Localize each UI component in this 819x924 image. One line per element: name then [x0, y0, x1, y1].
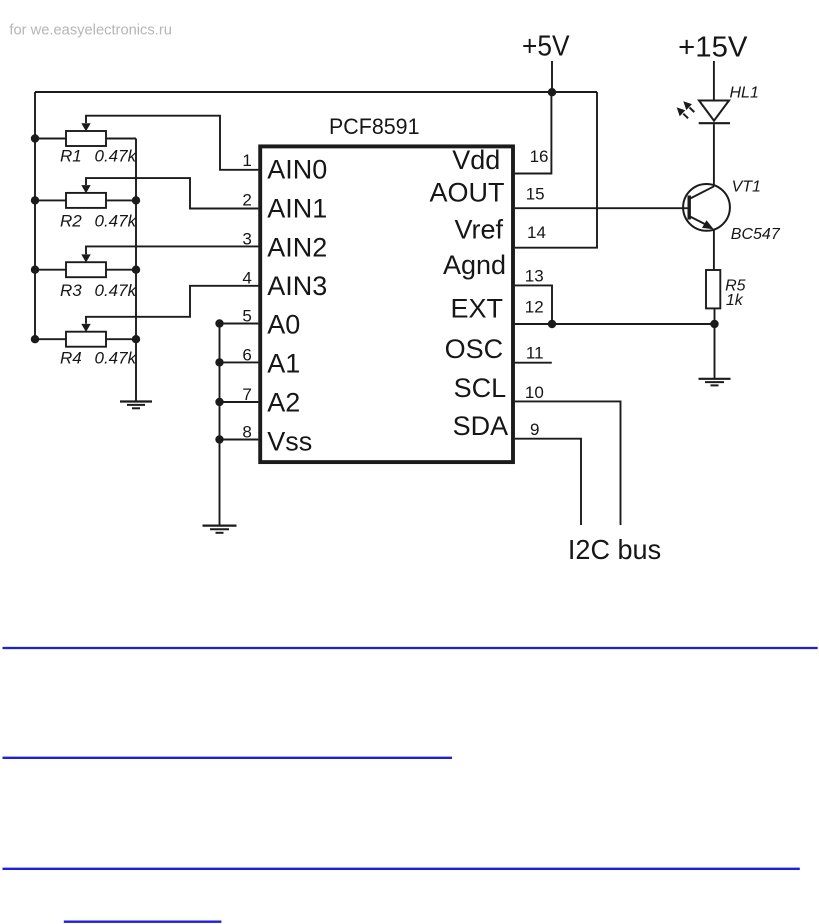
svg-text:14: 14: [527, 223, 546, 242]
resistor R2 body: [66, 193, 106, 208]
wire pin16 Vdd link: [515, 93, 551, 174]
LED light arrow 1: [690, 108, 695, 113]
svg-text:BC547: BC547: [731, 226, 781, 243]
svg-text:6: 6: [242, 345, 251, 364]
svg-text:9: 9: [530, 420, 539, 439]
svg-text:AOUT: AOUT: [429, 177, 504, 207]
LED triangle anode: [699, 101, 729, 121]
junction dot pin5: [215, 319, 223, 327]
junction dot R3 right rail: [132, 266, 140, 274]
svg-text:3: 3: [242, 229, 251, 248]
svg-text:R4: R4: [60, 349, 82, 368]
junction dot pin8: [215, 435, 223, 443]
svg-text:OSC: OSC: [445, 334, 504, 364]
transistor collector: [690, 186, 714, 198]
svg-text:AIN3: AIN3: [267, 271, 327, 301]
wire R4 wiper to pin 4: [86, 286, 258, 324]
resistor R3 potentiometer: [31, 246, 259, 277]
junction dot R3 left rail: [31, 266, 39, 274]
wire EXT node to ground: [714, 324, 716, 378]
svg-text:R1: R1: [60, 146, 82, 165]
wiper arrow R3: [81, 254, 90, 262]
svg-text:+5V: +5V: [522, 31, 570, 63]
wire R2 right terminal: [106, 199, 136, 201]
svg-text:AIN0: AIN0: [267, 154, 327, 184]
svg-text:R2: R2: [60, 212, 82, 231]
wire LED cathode to collector: [713, 124, 715, 186]
horizontal rule 1: [3, 647, 818, 649]
wire pin15 AOUT to base: [515, 207, 688, 209]
svg-text:Vref: Vref: [454, 214, 503, 244]
IC U1 PCF8591 body: [260, 146, 513, 462]
horizontal rule 2: [3, 757, 453, 759]
svg-text:11: 11: [526, 343, 544, 362]
svg-text:0.47k: 0.47k: [95, 281, 138, 300]
svg-text:A1: A1: [267, 348, 300, 378]
junction dot EXT emitter node: [710, 320, 718, 328]
svg-text:A2: A2: [267, 388, 300, 418]
svg-text:VT1: VT1: [732, 178, 761, 195]
wire right pot rail: [135, 139, 137, 402]
wire pin11 OSC stub: [515, 362, 552, 364]
ground below R5: [699, 379, 731, 386]
resistor R5: [706, 270, 720, 308]
junction dot R2 left rail: [31, 196, 39, 204]
wire R3 wiper to pin 3: [86, 246, 258, 254]
junction dot +5V rail: [548, 88, 556, 96]
svg-text:PCF8591: PCF8591: [329, 114, 420, 139]
wire pin8 stub: [220, 439, 259, 441]
wire pin13 Agnd link: [515, 285, 552, 324]
svg-text:15: 15: [526, 185, 545, 204]
junction dot R4 right rail: [132, 335, 140, 343]
wiper arrow R1: [81, 123, 90, 131]
junction dot Agnd-EXT: [548, 320, 556, 328]
junction dot R1 left rail: [31, 134, 39, 142]
wire pin7 stub: [220, 401, 259, 403]
svg-text:Vdd: Vdd: [452, 145, 500, 175]
transistor case circle: [683, 184, 730, 231]
wire Vref feed from rail: [515, 92, 597, 248]
svg-text:0.47k: 0.47k: [95, 212, 138, 231]
wiper arrow R4: [81, 324, 90, 332]
junction dot R4 left rail: [31, 335, 39, 343]
svg-text:SCL: SCL: [454, 373, 507, 403]
wire pin10 SCL: [515, 401, 621, 525]
wire R4 right terminal: [106, 338, 136, 340]
wiper arrow R2: [81, 185, 90, 193]
LED cathode bar: [699, 122, 730, 124]
wire pin6 stub: [220, 361, 259, 363]
horizontal rule 4: [64, 921, 222, 923]
svg-text:AIN2: AIN2: [267, 232, 327, 262]
svg-text:0.47k: 0.47k: [95, 146, 138, 165]
resistor R1 potentiometer: [31, 116, 259, 170]
svg-text:4: 4: [242, 269, 251, 288]
svg-text:for we.easyelectronics.ru: for we.easyelectronics.ru: [9, 22, 172, 39]
resistor R1 body: [66, 131, 106, 146]
LED HL1: [677, 101, 730, 124]
wire R1 wiper to pin 1: [86, 116, 258, 170]
svg-text:A0: A0: [267, 310, 300, 340]
resistor R2 potentiometer: [31, 178, 259, 208]
svg-text:I2C bus: I2C bus: [568, 534, 661, 565]
wire R3 left terminal: [35, 269, 66, 271]
wire pin9 SDA: [515, 439, 581, 525]
svg-text:5: 5: [242, 307, 251, 326]
wire R1 right terminal: [106, 138, 136, 140]
svg-text:12: 12: [525, 298, 544, 317]
resistor R3 body: [66, 262, 106, 277]
svg-text:SDA: SDA: [453, 411, 509, 441]
junction dot R2 right rail: [132, 196, 140, 204]
transistor emitter with arrow: [690, 217, 706, 225]
junction dot pin6: [215, 358, 223, 366]
ground below pot rail: [120, 402, 152, 409]
resistor R4 potentiometer: [31, 286, 259, 347]
wire pin12 EXT net: [515, 323, 715, 325]
svg-text:Vss: Vss: [267, 426, 312, 456]
transistor base bar: [688, 196, 691, 220]
svg-text:Agnd: Agnd: [443, 250, 506, 280]
wire R2 left terminal: [35, 199, 66, 201]
resistor R4 body: [66, 332, 106, 347]
svg-text:7: 7: [242, 385, 251, 404]
svg-text:1: 1: [242, 151, 251, 170]
svg-text:2: 2: [242, 191, 251, 210]
wire +5V drop: [551, 61, 553, 92]
svg-text:HL1: HL1: [730, 85, 759, 102]
svg-text:R3: R3: [60, 281, 82, 300]
wire R2 wiper to pin 2: [86, 178, 258, 208]
wire A0-Vss rail: [219, 324, 221, 526]
svg-text:8: 8: [242, 423, 251, 442]
wire pin5 stub: [220, 323, 259, 325]
svg-text:10: 10: [525, 383, 544, 402]
wire R1 left terminal: [35, 138, 66, 140]
svg-text:0.47k: 0.47k: [95, 349, 138, 368]
wire left rail: [34, 92, 36, 339]
wire R4 left terminal: [35, 338, 66, 340]
svg-text:1k: 1k: [726, 292, 744, 309]
junction dot pin7: [215, 398, 223, 406]
LED light arrow 2: [683, 114, 688, 119]
svg-text:16: 16: [530, 147, 549, 166]
svg-text:13: 13: [525, 267, 544, 286]
svg-text:+15V: +15V: [678, 31, 748, 63]
wire +15V drop: [713, 61, 715, 101]
wire emitter to R5: [713, 230, 715, 271]
wire top +5V rail: [35, 91, 597, 93]
svg-text:EXT: EXT: [450, 293, 503, 323]
svg-text:AIN1: AIN1: [267, 194, 327, 224]
transistor Q1 VT1 BC547: [683, 184, 730, 231]
wire R3 right terminal: [106, 269, 136, 271]
horizontal rule 3: [3, 868, 800, 870]
wire R5 to EXT node: [714, 309, 716, 325]
ground below A0 rail: [203, 526, 237, 533]
